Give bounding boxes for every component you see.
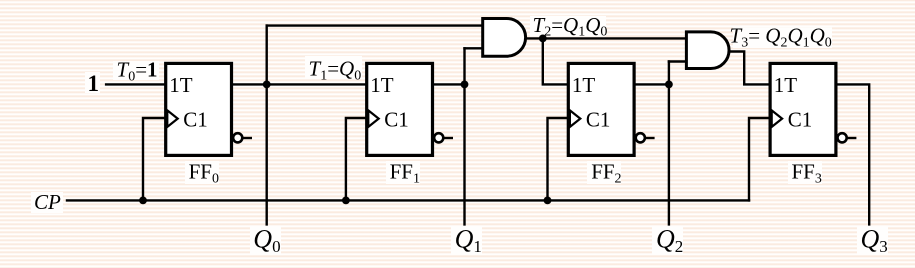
svg-text:1T: 1T (169, 73, 193, 97)
wire: Q1 to AND1 bottom input (463, 47, 483, 49)
svg-text:1T: 1T (370, 73, 394, 97)
label T3= Q2Q1Q0 (730, 24, 833, 51)
wire: CP clock line (66, 199, 750, 201)
FF2 clock edge triangle (570, 110, 580, 127)
svg-text:CP: CP (34, 190, 61, 214)
label T0=1 (113, 58, 159, 85)
svg-text:T0=1: T0=1 (117, 58, 158, 85)
wire: FF3 Q output to Q3 vertical (836, 84, 869, 225)
svg-text:C1: C1 (384, 108, 409, 132)
junction: T2 node dot (539, 35, 547, 43)
T flip-flop FF1 box (367, 63, 433, 155)
FF3 inverted output stub (847, 137, 857, 139)
junction: CP to FF2 riser dot (544, 197, 552, 205)
wire: AND2 output to FF3 1T input (728, 52, 769, 85)
FF3 clock edge triangle (772, 110, 782, 127)
FF0 inverted output stub (242, 137, 252, 139)
label FF0 (185, 160, 219, 187)
AND gate U1 (T2 = Q1Q0) (483, 19, 526, 57)
label Q2 (652, 224, 683, 256)
AND gate U2 (T3 = Q2Q1Q0) (686, 32, 729, 69)
wire: CP riser to FF1 C1 (346, 118, 366, 202)
FF0 clock edge triangle (167, 110, 177, 127)
wire: AND1 output to AND2 top input (526, 37, 687, 39)
wire: FF0 Q output to FF1 1T (233, 83, 367, 85)
T flip-flop FF3 box (770, 63, 836, 155)
wire: constant 1 input to FF0 1T (105, 83, 165, 85)
svg-text:1: 1 (88, 71, 100, 96)
wire: Q0 vertical output line (266, 24, 268, 225)
FF2 inverted output stub (645, 137, 655, 139)
svg-text:1T: 1T (774, 73, 798, 97)
junction: CP to FF0 riser dot (139, 197, 147, 205)
FF1 clock edge triangle (368, 110, 378, 127)
svg-text:C1: C1 (788, 108, 813, 132)
junction: Q2 node dot (665, 81, 673, 89)
junction: Q1 node dot (461, 81, 469, 89)
svg-text:C1: C1 (183, 108, 208, 132)
wire: Q1 vertical output line (463, 47, 465, 226)
wire: FF2 Q output (635, 83, 670, 85)
label T1=Q0 (305, 56, 362, 83)
wire: CP riser to FF0 C1 (143, 118, 165, 202)
label FF1 (386, 160, 420, 187)
FF2 inverted output bubble (636, 133, 645, 142)
junction: Q0 node dot (263, 81, 271, 89)
wire: Q2 to AND2 bottom input (668, 60, 687, 62)
label CP (31, 190, 63, 214)
wire: T2 node down to FF2 1T input (543, 37, 568, 84)
label FF3 (788, 160, 822, 187)
FF1 inverted output stub (443, 137, 453, 139)
svg-text:1T: 1T (572, 73, 596, 97)
wire: CP riser to FF3 C1 (749, 118, 770, 202)
wire: FF1 Q output (433, 83, 466, 85)
node: constant 1 input label (85, 71, 100, 96)
label Q3 (857, 224, 888, 256)
svg-text:C1: C1 (586, 108, 611, 132)
wire: Q2 vertical output line (668, 60, 670, 225)
T flip-flop FF0 box (166, 63, 232, 155)
svg-text:T1=Q0: T1=Q0 (309, 57, 362, 84)
label Q1 (451, 224, 482, 256)
wire: Q0 feedback to AND1 top input (266, 24, 484, 26)
wire: CP riser to FF2 C1 (548, 118, 569, 202)
FF0 inverted output bubble (233, 133, 242, 142)
label T2=Q1Q0 (530, 13, 607, 40)
junction: CP to FF1 riser dot (342, 197, 350, 205)
label Q0 (250, 224, 281, 256)
T flip-flop FF2 box (568, 63, 634, 155)
label FF2 (587, 160, 622, 187)
FF1 inverted output bubble (434, 133, 443, 142)
FF3 inverted output bubble (838, 133, 847, 142)
